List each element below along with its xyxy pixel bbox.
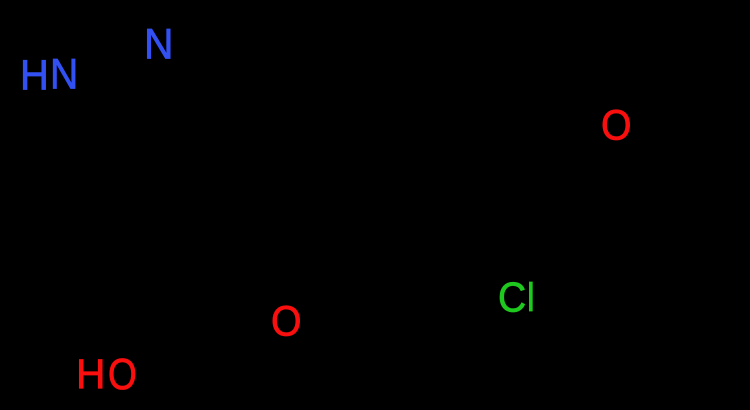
benzene inner double bond 3 [362,208,418,241]
bond C4=C5 (pyrazole double bond) [148,163,252,170]
bond C4'-Cl (chloro) [512,208,515,276]
bond C4'-C5' (benzene) [430,208,512,255]
bond C3''-C4' (benzene) [510,113,515,208]
bond C5'-C6' (benzene) [348,208,430,255]
atom label H of HN (pyrazole N1-H hydrogen, blue) [20,54,49,97]
bond N2=C3 (pyrazole double bond) [176,52,262,70]
bond C4-C7 (to carboxyl carbon) [198,163,252,278]
bond C7=O (carbonyl double bond) [201,276,266,311]
atom label O (methoxy oxygen, red) [601,104,632,147]
atom label O of HO (hydroxyl oxygen, red) [108,353,137,396]
atom label C of Cl (chlorine, green) [498,277,526,318]
bond C1'-C2' (benzene) [348,66,430,113]
bond C5-N1 (pyrazole) [60,94,148,170]
atom label O (carbonyl oxygen, red) [271,300,302,343]
bond C3''-O (methoxy C-O) [512,113,598,121]
bond C6'-C1' (benzene) [346,113,351,208]
bond C3-C1' (pyrazole to phenyl link) [262,70,348,113]
bond N1-N2 (pyrazole N-N) [82,48,138,66]
bond O-CH3 (methoxy methyl) [634,66,702,112]
benzene inner double bond 2 [498,125,503,196]
benzene inner double bond 1 [360,82,428,121]
bond C7-OH (hydroxyl C-O) [136,278,198,352]
atom label l of Cl (chlorine, green) [527,278,535,318]
bond C3-C4 (pyrazole) [252,70,262,163]
atom label H of HO (hydroxyl hydrogen, red) [76,354,105,395]
bond C2'-C3'' (benzene) [430,66,512,113]
atom label N (pyrazole N2, blue) [144,23,173,66]
atom label N of HN (pyrazole N1, blue) [50,53,78,96]
